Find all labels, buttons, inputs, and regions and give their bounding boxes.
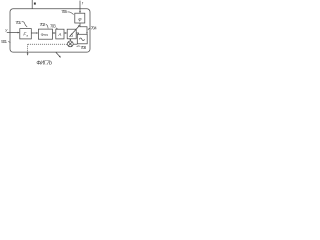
svg-text:702: 702 (40, 22, 46, 27)
block 701 box (20, 29, 32, 39)
svg-text:501: 501 (1, 39, 7, 44)
svg-text:701: 701 (15, 20, 21, 25)
svg-text:y: y (4, 27, 8, 32)
svg-text:A: A (57, 32, 61, 37)
arrowhead output diagonal (59, 56, 61, 58)
mixer X (68, 42, 72, 46)
block delay box (variable) (67, 29, 76, 39)
leader 703 (56, 28, 58, 29)
arrowhead box2 to box3 (54, 32, 56, 34)
leader 501 (8, 42, 10, 43)
svg-text:703: 703 (50, 24, 56, 29)
dashed output wire horizontal (28, 43, 67, 45)
mixer circle (67, 41, 73, 47)
arrowhead box3 to box4 (65, 32, 67, 34)
svg-text:Δ: Δ (70, 32, 73, 37)
svg-text:708: 708 (80, 45, 86, 50)
wire y-input (7, 32, 19, 34)
arrowhead f into 706 (79, 11, 81, 13)
arrowhead dashed output down (27, 53, 29, 55)
svg-text:Фнч: Фнч (41, 32, 48, 37)
dashed output wire vertical (27, 44, 29, 54)
outer dashed-free rounded enclosure 501 (10, 9, 90, 52)
arrowhead variable diagonal (78, 25, 80, 27)
svg-text:a: a (26, 34, 28, 38)
arrowhead into oscillator top (86, 32, 88, 34)
wire box3 to box4 (64, 32, 66, 34)
arrowhead box1 to box2 (36, 32, 38, 34)
arrowhead y into box1 (18, 32, 20, 34)
label s (34, 3, 36, 5)
wire box2 to box3 (53, 32, 55, 34)
variable-element diagonal arrow (69, 26, 79, 37)
block 708 oscillator box (77, 34, 87, 44)
leader 708 (77, 45, 80, 48)
wire f-input top (79, 1, 81, 13)
leader 704 (88, 28, 90, 30)
wire s-input top (31, 0, 33, 9)
output diagonal arrow bottom (56, 52, 60, 57)
block 702 box (38, 29, 52, 39)
wire 706 output L-bend to oscillator (80, 23, 87, 34)
wire delay box to mixer (69, 39, 71, 41)
svg-text:f: f (82, 0, 84, 5)
block 706 box (75, 13, 85, 23)
block 703 box (56, 29, 64, 39)
leader 702 (46, 25, 48, 29)
wire box1 to box2 (31, 32, 37, 34)
svg-text:φ: φ (78, 17, 81, 22)
leader 706 (67, 12, 73, 15)
svg-text:ФИГ.7b: ФИГ.7b (36, 60, 52, 66)
wire delay box to oscillator corner (76, 33, 78, 34)
leader 701 (22, 22, 28, 27)
wire mixer to oscillator (73, 43, 77, 45)
oscillator sine symbol (79, 38, 84, 41)
svg-text:706: 706 (61, 9, 67, 14)
svg-text:704: 704 (91, 25, 97, 30)
arrowhead delay to mixer (70, 39, 72, 41)
